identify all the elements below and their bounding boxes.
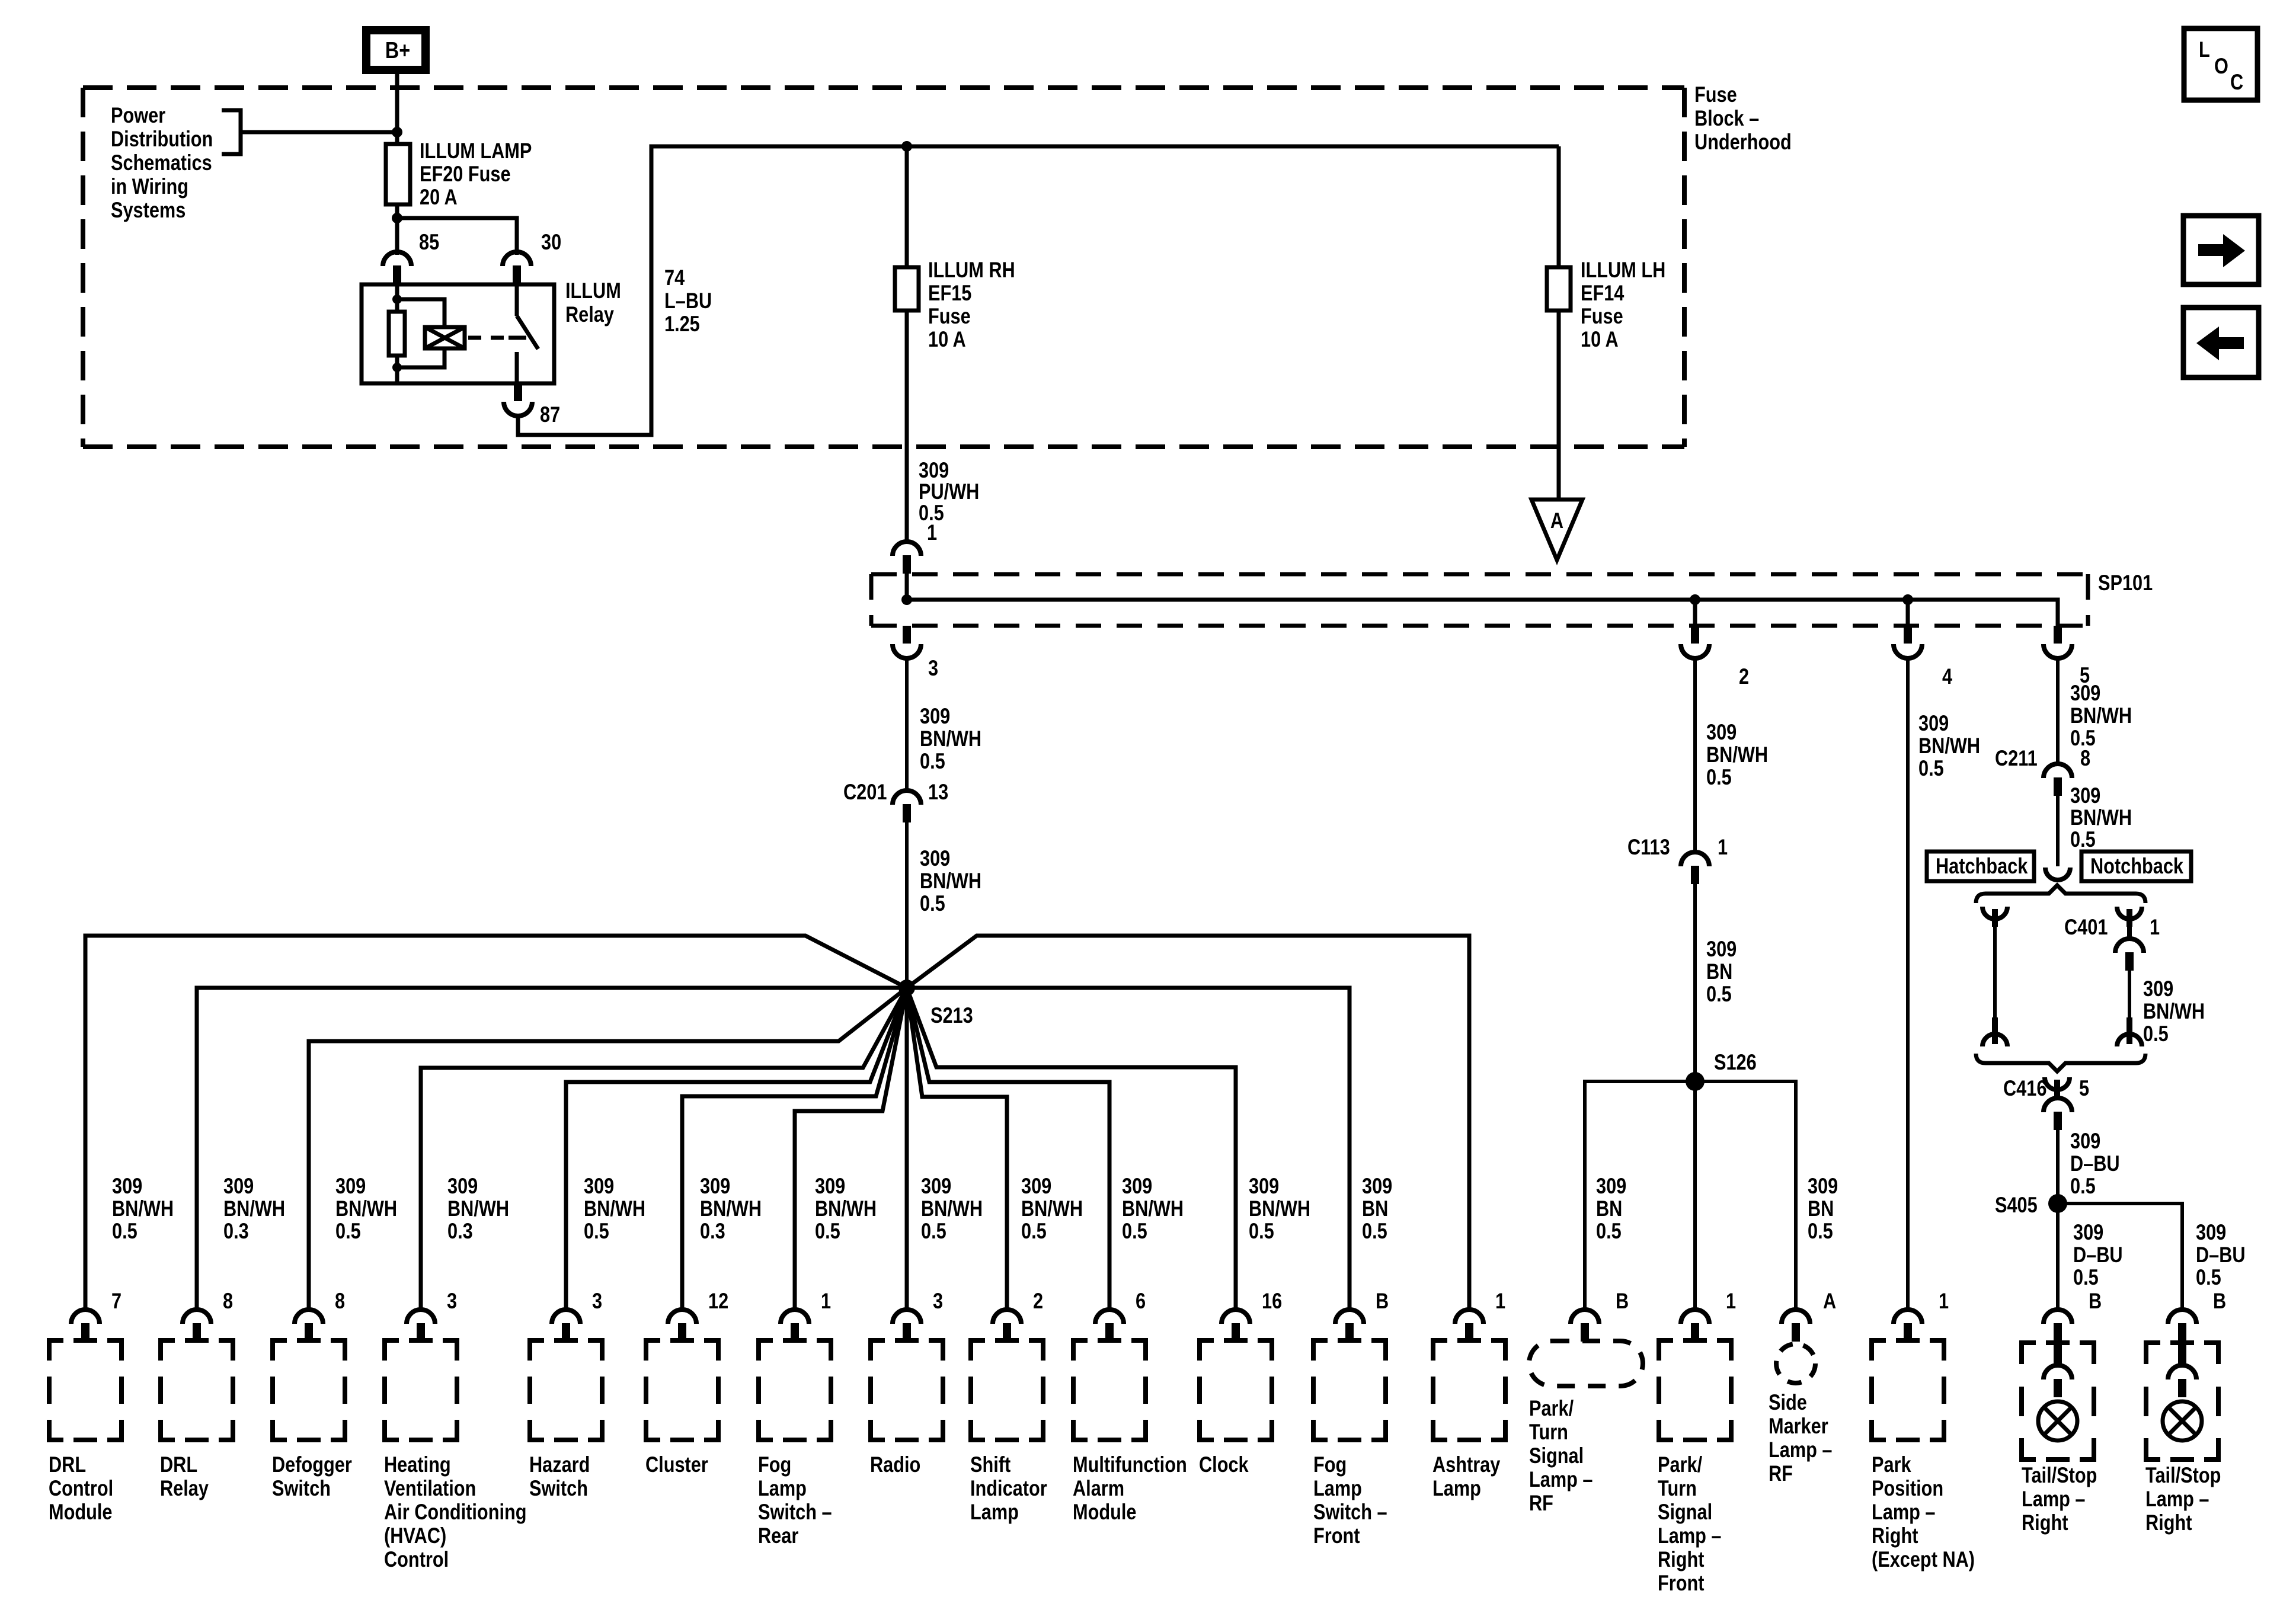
terminal 4 from SP101 bbox=[1894, 600, 1952, 689]
svg-text:1: 1 bbox=[1495, 1289, 1505, 1313]
relay actuator dashed link bbox=[468, 336, 509, 340]
svg-text:SP101: SP101 bbox=[2098, 571, 2153, 595]
relay coil branch wire bbox=[395, 284, 399, 383]
svg-text:HazardSwitch: HazardSwitch bbox=[529, 1452, 590, 1500]
svg-text:B: B bbox=[2089, 1289, 2102, 1313]
splice S126 bbox=[1686, 1050, 1757, 1091]
LOC box bbox=[2184, 28, 2257, 100]
off-page reference triangle A bbox=[1531, 500, 1582, 560]
svg-text:1: 1 bbox=[1726, 1289, 1736, 1313]
SP101 bus wire bbox=[907, 572, 2058, 627]
component box Multifunction Alarm Module bbox=[1073, 1338, 1187, 1525]
pin 3 HVAC Control bbox=[407, 1289, 457, 1342]
pin 1 Fog Lamp Switch Rear bbox=[781, 1289, 831, 1342]
svg-text:S405: S405 bbox=[1995, 1193, 2038, 1217]
component box Fog Lamp Switch Rear bbox=[758, 1338, 832, 1548]
wire C201 to splice S213 bbox=[905, 822, 909, 988]
node SP101 at terminal 1 bbox=[901, 594, 912, 605]
svg-text:Hatchback: Hatchback bbox=[1936, 854, 2028, 878]
component box Shift Indicator Lamp bbox=[970, 1338, 1047, 1525]
relay coil wire loop bbox=[397, 299, 445, 327]
relay solenoid coil box with X bbox=[425, 327, 465, 348]
connector C416 pin 5 bbox=[2003, 1076, 2089, 1204]
relay resistor bbox=[389, 312, 405, 356]
svg-text:Notchback: Notchback bbox=[2090, 854, 2183, 878]
svg-text:B: B bbox=[1376, 1289, 1389, 1313]
pin 1 Park Position Lamp Right bbox=[1894, 1289, 1949, 1342]
battery feed B+ box bbox=[366, 30, 426, 70]
SP101 dashed box bbox=[871, 574, 2088, 626]
svg-text:B: B bbox=[2213, 1289, 2226, 1313]
wire end cup at branch point bbox=[2045, 868, 2070, 880]
svg-text:1: 1 bbox=[1718, 835, 1728, 859]
wire S213 to Radio bbox=[905, 988, 909, 1310]
wire S213 to Clock bbox=[907, 988, 1236, 1310]
component box Park Position Lamp Right bbox=[1872, 1338, 1975, 1572]
Notchback tag box bbox=[2081, 852, 2191, 881]
component box HVAC Control bbox=[384, 1338, 527, 1572]
splice S405 bbox=[1995, 1193, 2067, 1217]
pin 7 DRL Control Module bbox=[71, 1289, 121, 1342]
pin 8 DRL Relay bbox=[183, 1289, 233, 1342]
svg-text:Clock: Clock bbox=[1199, 1452, 1249, 1477]
relay switch bbox=[509, 284, 538, 383]
pin 2 Shift Indicator Lamp bbox=[993, 1289, 1043, 1342]
svg-text:4: 4 bbox=[1942, 664, 1952, 689]
wire S213 to HVAC Control bbox=[421, 988, 907, 1310]
svg-text:12: 12 bbox=[708, 1289, 728, 1313]
fuse EF14 bbox=[1547, 258, 1665, 351]
wire bracket to B+ feed bbox=[241, 130, 397, 135]
component box DRL Control Module bbox=[49, 1338, 121, 1525]
svg-text:85: 85 bbox=[419, 230, 439, 254]
node at B+ feed tap bbox=[392, 127, 402, 137]
svg-text:1: 1 bbox=[927, 520, 937, 545]
svg-text:C: C bbox=[2230, 70, 2243, 94]
wire down to fuse EF14 bbox=[1557, 146, 1561, 500]
svg-text:30: 30 bbox=[541, 230, 561, 254]
wire to relay terminal 30 bbox=[397, 218, 517, 255]
connector C201 pin 13 bbox=[843, 780, 948, 822]
component box Ashtray Lamp bbox=[1432, 1338, 1505, 1501]
wire S213 to DRL Control Module bbox=[85, 936, 907, 1310]
wire C211 to body branch point bbox=[2056, 796, 2060, 866]
wire S213 to Fog Lamp Switch Front bbox=[907, 988, 1350, 1310]
component box Defogger Switch bbox=[272, 1338, 352, 1501]
svg-text:A: A bbox=[1550, 508, 1563, 533]
svg-text:3: 3 bbox=[447, 1289, 457, 1313]
pin 1 Ashtray Lamp bbox=[1455, 1289, 1505, 1342]
fuse block dashed border bbox=[83, 88, 1684, 447]
connector C211 pin 8 bbox=[1995, 746, 2090, 796]
pin 12 Cluster bbox=[668, 1289, 728, 1342]
svg-text:7: 7 bbox=[111, 1289, 121, 1313]
svg-text:2: 2 bbox=[1033, 1289, 1043, 1313]
pin 6 Multifunction Alarm Module bbox=[1095, 1289, 1146, 1342]
svg-text:3: 3 bbox=[933, 1289, 943, 1313]
pin B Tail/Stop Lamp Right 1 bbox=[2044, 1289, 2102, 1342]
component outline Side Marker Lamp RF bbox=[1769, 1344, 1833, 1486]
component outline Park/Turn Signal Lamp RF bbox=[1529, 1341, 1643, 1516]
svg-text:8: 8 bbox=[223, 1289, 233, 1313]
relay coil branch node top bbox=[392, 295, 402, 304]
closing brace bbox=[1976, 1054, 2145, 1071]
left arrow box bbox=[2183, 308, 2259, 377]
relay terminal 30 bbox=[503, 230, 561, 284]
node at EF15 branch bbox=[901, 141, 912, 152]
wire S213 to DRL Relay bbox=[197, 988, 907, 1310]
wire B+ to fuse EF20 bbox=[395, 73, 399, 255]
component box Clock bbox=[1199, 1338, 1272, 1477]
svg-text:L: L bbox=[2199, 37, 2210, 62]
connector C401 pin 1 branch bbox=[2064, 907, 2160, 1046]
wire S405 to Tail/Stop Lamp Right 2 bbox=[2058, 1204, 2182, 1310]
svg-text:C113: C113 bbox=[1627, 835, 1670, 859]
opening brace bbox=[1976, 885, 2145, 903]
wire terminal 5 to C211 bbox=[2056, 658, 2060, 763]
node below fuse EF20 bbox=[392, 213, 402, 223]
wire S213 to Hazard Switch bbox=[566, 988, 907, 1310]
pin 16 Clock bbox=[1221, 1289, 1282, 1342]
wire C113 to splice S126 bbox=[1693, 884, 1697, 1081]
svg-text:3: 3 bbox=[928, 656, 938, 680]
wire S126 to Park/Turn Signal Lamp Right Front bbox=[1693, 1081, 1697, 1310]
svg-text:13: 13 bbox=[928, 780, 948, 804]
svg-text:1: 1 bbox=[2150, 915, 2160, 939]
svg-text:B: B bbox=[1616, 1289, 1629, 1313]
pin 3 Hazard Switch bbox=[552, 1289, 602, 1342]
svg-text:B+: B+ bbox=[385, 37, 410, 63]
pin 1 Park/Turn Signal Lamp Right Front bbox=[1681, 1289, 1736, 1342]
svg-text:C211: C211 bbox=[1995, 746, 2038, 770]
right arrow box bbox=[2183, 216, 2259, 284]
relay coil branch node bottom bbox=[392, 363, 402, 372]
svg-text:8: 8 bbox=[335, 1289, 345, 1313]
svg-text:Cluster: Cluster bbox=[645, 1452, 708, 1477]
component box Tail/Stop Lamp Right 2 bbox=[2145, 1336, 2221, 1535]
component box Tail/Stop Lamp Right 1 bbox=[2022, 1336, 2097, 1535]
component box Radio bbox=[870, 1338, 943, 1477]
hatchback direct wire branch bbox=[1982, 907, 2007, 1046]
svg-text:5: 5 bbox=[2079, 1076, 2089, 1100]
component box Hazard Switch bbox=[529, 1338, 602, 1501]
component box DRL Relay bbox=[160, 1338, 233, 1501]
node SP101 at terminal 2 bbox=[1690, 594, 1700, 605]
wire S213 to Cluster bbox=[682, 988, 907, 1310]
svg-text:O: O bbox=[2214, 54, 2228, 78]
svg-text:2: 2 bbox=[1739, 664, 1749, 689]
wire down to fuse EF15 bbox=[905, 146, 909, 541]
connector C113 pin 1 bbox=[1627, 835, 1728, 884]
pin B Tail/Stop Lamp Right 2 bbox=[2168, 1289, 2226, 1342]
wire 74 L-BU from relay 87 to fuses bbox=[518, 146, 1559, 435]
fuse EF20 bbox=[386, 139, 532, 209]
terminal 3 from SP101 bbox=[893, 626, 938, 681]
wire terminal 4 to Park Position Lamp bbox=[1906, 658, 1910, 1310]
svg-text:Radio: Radio bbox=[870, 1452, 920, 1477]
Hatchback tag box bbox=[1927, 852, 2034, 881]
component box Cluster bbox=[645, 1338, 718, 1477]
pin 3 Radio bbox=[893, 1289, 943, 1342]
component box Park/Turn Signal Lamp Right Front bbox=[1658, 1338, 1731, 1596]
relay ILLUM Relay box bbox=[362, 279, 621, 383]
svg-text:87: 87 bbox=[540, 402, 560, 427]
terminal 1 into SP101 bbox=[893, 520, 937, 574]
relay terminal 85 bbox=[383, 230, 439, 284]
svg-text:3: 3 bbox=[592, 1289, 602, 1313]
svg-text:1: 1 bbox=[821, 1289, 831, 1313]
relay terminal 87 bbox=[504, 383, 560, 427]
pin A Side Marker Lamp RF bbox=[1782, 1289, 1836, 1342]
svg-text:6: 6 bbox=[1136, 1289, 1146, 1313]
terminal 5 from SP101 bbox=[2044, 626, 2090, 688]
wire S213 to Multifunction Alarm Module bbox=[907, 988, 1109, 1310]
svg-text:C201: C201 bbox=[843, 780, 887, 804]
bracket callout bbox=[222, 110, 241, 154]
svg-text:16: 16 bbox=[1262, 1289, 1282, 1313]
svg-text:8: 8 bbox=[2080, 746, 2090, 770]
component box Fog Lamp Switch Front bbox=[1313, 1338, 1387, 1548]
pin 8 Defogger Switch bbox=[295, 1289, 345, 1342]
wire S405 to Tail/Stop Lamp Right 1 bbox=[2056, 1204, 2060, 1310]
fuse EF15 bbox=[895, 258, 1015, 351]
wire terminal 3 to C201 bbox=[905, 658, 909, 790]
terminal 2 from SP101 bbox=[1681, 600, 1749, 689]
svg-text:A: A bbox=[1823, 1289, 1836, 1313]
wire S213 to Fog Lamp Switch Rear bbox=[795, 988, 907, 1310]
wire S126 to Side Marker Lamp RF bbox=[1695, 1081, 1796, 1310]
svg-text:S126: S126 bbox=[1714, 1050, 1757, 1074]
pin B Park/Turn Signal Lamp RF bbox=[1571, 1289, 1629, 1342]
wire terminal 2 to C113 bbox=[1693, 658, 1697, 852]
wire S213 to Shift Indicator Lamp bbox=[907, 988, 1007, 1310]
svg-text:C416: C416 bbox=[2003, 1076, 2046, 1100]
Power Distribution reference text bbox=[111, 103, 213, 222]
pin B Fog Lamp Switch Front bbox=[1335, 1289, 1389, 1342]
svg-text:ILLUMRelay: ILLUMRelay bbox=[565, 279, 621, 327]
wire S126 to Park/Turn Signal Lamp RF bbox=[1585, 1081, 1695, 1310]
wire S213 to Defogger Switch bbox=[309, 988, 907, 1310]
node SP101 at terminal 4 bbox=[1902, 594, 1913, 605]
svg-text:C401: C401 bbox=[2064, 915, 2108, 939]
svg-text:S213: S213 bbox=[930, 1003, 973, 1028]
svg-text:1: 1 bbox=[1939, 1289, 1949, 1313]
splice S213 bbox=[898, 980, 973, 1028]
wire S213 to Ashtray Lamp bbox=[907, 936, 1469, 1310]
